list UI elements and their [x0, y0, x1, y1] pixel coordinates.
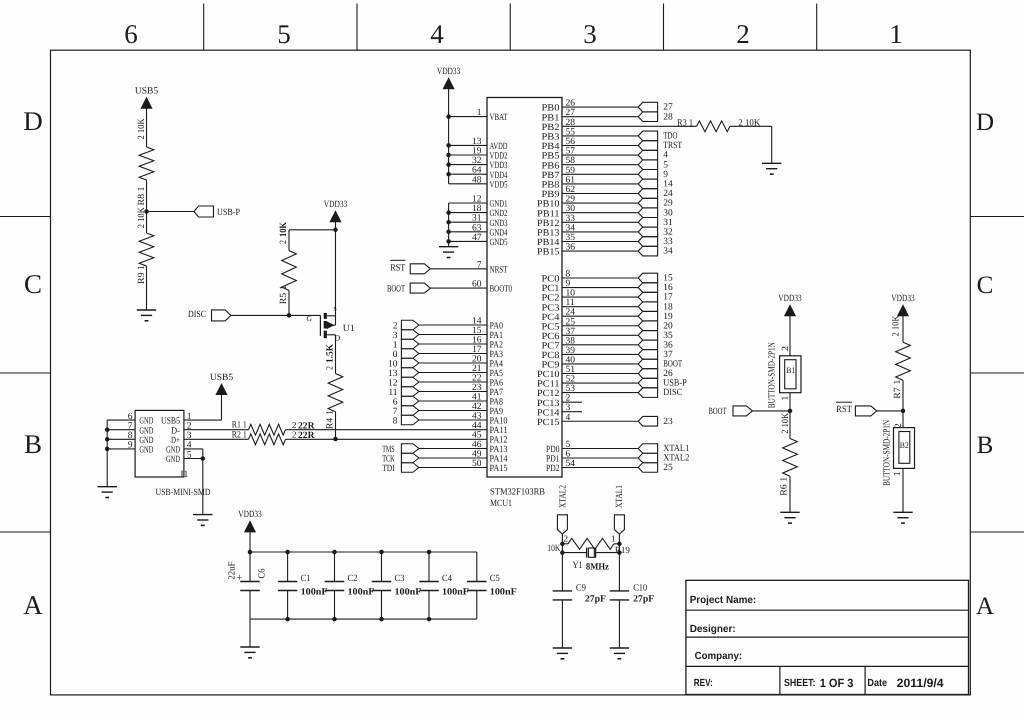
- label R2 value 2 22R: [292, 430, 315, 442]
- svg-text:GND2: GND2: [490, 209, 508, 219]
- svg-text:25: 25: [663, 463, 673, 473]
- svg-text:19: 19: [663, 312, 673, 322]
- svg-text:PC15: PC15: [537, 418, 560, 428]
- svg-text:16: 16: [663, 283, 673, 293]
- power VDD33 (above MCU): [437, 67, 461, 89]
- label R5 value 2 10K: [279, 221, 289, 244]
- svg-text:11: 11: [388, 388, 397, 398]
- svg-text:PC2: PC2: [542, 294, 560, 304]
- label C9 refdes: [576, 584, 586, 594]
- svg-text:PB5: PB5: [542, 152, 560, 162]
- wire J1 pin4 pin5 to ground: [184, 449, 205, 515]
- label J1 left pin numbers: [128, 412, 133, 451]
- label R3 refdes R3 1: [677, 118, 693, 128]
- svg-text:100nF: 100nF: [395, 587, 422, 597]
- ground J1 left: [98, 487, 117, 498]
- svg-text:PD1: PD1: [546, 455, 560, 465]
- svg-text:G: G: [307, 314, 313, 323]
- svg-text:7: 7: [393, 407, 398, 417]
- ground J1 pin4/5: [193, 515, 212, 526]
- label PB0 PB1 tag nets 27 28: [663, 103, 673, 123]
- label Designer: [690, 624, 736, 635]
- svg-text:XTAL2: XTAL2: [663, 454, 689, 464]
- capacitor C1: [278, 582, 298, 591]
- label R19 refdes: [615, 546, 630, 556]
- svg-text:PB11: PB11: [537, 209, 560, 219]
- wire B1 to BOOT node: [789, 393, 791, 411]
- capacitor C9: [553, 591, 573, 600]
- svg-text:D: D: [23, 106, 43, 136]
- svg-text:13: 13: [388, 369, 398, 379]
- tag stack PB0-PB1 with wires: [562, 102, 658, 121]
- power USB5 (left): [135, 87, 158, 109]
- row labels D C B A: [23, 106, 994, 620]
- svg-text:20: 20: [663, 321, 673, 331]
- svg-text:100nF: 100nF: [301, 587, 328, 597]
- svg-text:3: 3: [583, 19, 597, 49]
- svg-text:1 OF 3: 1 OF 3: [820, 676, 854, 690]
- svg-text:RST: RST: [836, 405, 852, 415]
- svg-text:TCK: TCK: [382, 454, 395, 464]
- svg-text:DISC: DISC: [663, 388, 682, 398]
- svg-text:VDD33: VDD33: [324, 200, 348, 210]
- svg-text:XTAL1: XTAL1: [615, 485, 625, 508]
- svg-text:PB12: PB12: [537, 219, 560, 229]
- svg-text:29: 29: [663, 199, 673, 209]
- svg-text:R8 1: R8 1: [137, 186, 147, 205]
- node RST junction: [901, 409, 906, 414]
- wire USB5 to R8: [146, 108, 148, 147]
- svg-text:GND4: GND4: [490, 228, 508, 238]
- wire BOOT tag to BOOT0 pin: [430, 287, 487, 289]
- svg-text:PA5: PA5: [490, 369, 504, 379]
- svg-text:Project Name:: Project Name:: [690, 595, 757, 606]
- svg-text:PB7: PB7: [542, 171, 560, 181]
- svg-text:PB2: PB2: [542, 123, 560, 133]
- svg-text:2: 2: [292, 420, 297, 430]
- svg-text:PC4: PC4: [542, 313, 560, 323]
- svg-text:10K: 10K: [547, 544, 560, 554]
- svg-text:100nF: 100nF: [490, 587, 517, 597]
- svg-text:2 10K: 2 10K: [892, 315, 902, 336]
- svg-text:VDD33: VDD33: [437, 67, 461, 77]
- svg-text:R1 1: R1 1: [232, 421, 247, 431]
- svg-text:PB9: PB9: [542, 190, 560, 200]
- wire R9 to ground: [146, 266, 148, 310]
- svg-text:PA10: PA10: [490, 417, 508, 427]
- svg-text:28: 28: [663, 112, 673, 122]
- svg-text:REV:: REV:: [694, 678, 713, 689]
- svg-text:14: 14: [663, 180, 673, 190]
- label R7 value 2 10K (vertical): [892, 315, 902, 336]
- svg-text:BOOT0: BOOT0: [490, 285, 513, 295]
- wire PC13 stub: [562, 401, 582, 403]
- svg-text:TMS: TMS: [382, 445, 395, 455]
- label PC tag nets: [663, 274, 687, 399]
- wire B2 to ground: [902, 468, 904, 512]
- tag XTAL1 (down): [614, 515, 624, 534]
- svg-text:RST: RST: [390, 263, 405, 273]
- svg-text:PB13: PB13: [537, 229, 560, 239]
- button B2: [894, 428, 915, 469]
- svg-text:R2 1: R2 1: [232, 430, 247, 440]
- wire C10 to ground: [618, 600, 620, 648]
- svg-text:R19: R19: [615, 546, 630, 556]
- resistor R19: [562, 538, 619, 549]
- wire node to B2: [902, 411, 904, 428]
- svg-text:GND: GND: [139, 446, 153, 456]
- wire R5 to gate node: [288, 290, 290, 315]
- label XTAL2 net (vertical): [558, 485, 568, 508]
- svg-text:27pF: 27pF: [633, 594, 654, 604]
- label TMS TCK TDI: [382, 445, 395, 474]
- connector J1 USB-MINI-SMD body: [135, 410, 184, 477]
- label R6 refdes R6 1 (vertical): [780, 477, 790, 496]
- power USB5 (above J1): [210, 373, 233, 395]
- wire VDD33 to R7: [902, 316, 904, 343]
- svg-text:1: 1: [889, 19, 903, 49]
- svg-text:PA9: PA9: [490, 407, 504, 417]
- svg-text:2 10K: 2 10K: [137, 118, 147, 139]
- svg-text:C10: C10: [633, 584, 647, 594]
- label B1 part BUTTON-SMD-2P1N (vertical): [767, 342, 777, 408]
- svg-text:1: 1: [611, 533, 616, 543]
- wire R3 to ground: [730, 126, 772, 163]
- label C10 refdes: [633, 584, 647, 594]
- resistor R4: [328, 374, 343, 412]
- label DISC text: [188, 310, 206, 320]
- svg-text:R5 1: R5 1: [279, 285, 289, 304]
- ground B2: [893, 512, 912, 523]
- label PA tag nets: [388, 321, 398, 426]
- svg-text:BUTTON-SMD-2P1N: BUTTON-SMD-2P1N: [883, 420, 893, 486]
- label B1 pin 1 (vertical): [781, 395, 791, 400]
- label R7 refdes R7 1 (vertical): [893, 379, 903, 398]
- svg-text:Y1: Y1: [573, 561, 583, 571]
- svg-text:PA14: PA14: [490, 455, 508, 465]
- wire node to R6: [789, 411, 791, 439]
- svg-text:PB1: PB1: [542, 113, 560, 123]
- svg-text:22uF: 22uF: [228, 562, 238, 580]
- capacitor C6 22uF electrolytic: [236, 572, 259, 591]
- wire RST tag to NRST pin: [430, 268, 487, 270]
- tag stack PA0-PA10 with wires: [401, 320, 487, 425]
- svg-text:B: B: [977, 432, 994, 459]
- label Y1 value 8MHz: [586, 563, 610, 573]
- label RST net with overline (right): [836, 402, 852, 415]
- svg-text:44: 44: [472, 421, 482, 431]
- label J1 right pin numbers: [187, 412, 192, 460]
- svg-text:2: 2: [279, 240, 289, 244]
- svg-text:GND: GND: [166, 446, 180, 456]
- svg-text:STM32F103RB: STM32F103RB: [490, 488, 545, 498]
- capacitor C4: [419, 582, 439, 591]
- wire node to R9: [146, 212, 148, 234]
- svg-text:C3: C3: [395, 574, 405, 584]
- wire BOOT tag to node: [752, 410, 790, 412]
- svg-text:PB4: PB4: [542, 142, 560, 152]
- svg-text:27: 27: [663, 103, 673, 113]
- tag RST to NRST: [410, 264, 430, 274]
- svg-text:PC1: PC1: [542, 284, 560, 294]
- svg-text:VDD33: VDD33: [238, 510, 262, 520]
- svg-text:DISC: DISC: [188, 310, 206, 320]
- wire VDD33 to B1: [789, 316, 791, 356]
- svg-text:PC7: PC7: [542, 341, 560, 351]
- svg-text:TRST: TRST: [663, 141, 682, 151]
- svg-text:VDD33: VDD33: [778, 294, 802, 304]
- svg-text:Company:: Company:: [695, 651, 743, 662]
- svg-text:GND1: GND1: [490, 200, 508, 210]
- svg-text:PC3: PC3: [542, 303, 560, 313]
- wire R4 to D+ line: [335, 412, 337, 439]
- ground C10: [610, 648, 629, 659]
- svg-text:PA13: PA13: [490, 445, 508, 455]
- svg-text:J1: J1: [180, 470, 189, 480]
- svg-text:VBAT: VBAT: [490, 113, 508, 123]
- node USB-P junction: [144, 209, 149, 214]
- ground cap bank: [240, 647, 259, 658]
- svg-text:PB15: PB15: [537, 248, 560, 258]
- svg-text:PC10: PC10: [537, 370, 560, 380]
- svg-text:MCU1: MCU1: [490, 499, 512, 509]
- svg-text:SHEET:: SHEET:: [784, 678, 816, 689]
- resistor R3: [697, 121, 730, 132]
- resistor R9: [139, 233, 154, 266]
- wire XTAL1 column: [617, 534, 622, 591]
- tag stack PD0-PD2 with wires: [562, 444, 658, 473]
- svg-text:PA15: PA15: [490, 464, 508, 474]
- wire J1 left gnd bus: [105, 420, 135, 487]
- wire R6 to ground: [789, 476, 791, 512]
- tag stack TMS TCK TDI with wires: [401, 444, 487, 473]
- svg-text:AVDD: AVDD: [490, 142, 508, 152]
- svg-text:15: 15: [663, 274, 673, 284]
- svg-text:XTAL2: XTAL2: [558, 485, 568, 508]
- label PB tag nets: [663, 132, 682, 257]
- label R9 value 2 10K: [137, 207, 147, 228]
- svg-text:PB14: PB14: [537, 238, 560, 248]
- label XTAL1 net (vertical): [615, 485, 625, 508]
- svg-text:C: C: [24, 269, 42, 299]
- svg-text:C5: C5: [490, 574, 500, 584]
- svg-text:37: 37: [663, 350, 673, 360]
- node VDD33/R5/U1 source: [333, 228, 338, 233]
- svg-text:C: C: [977, 272, 994, 299]
- svg-text:Designer:: Designer:: [690, 624, 736, 635]
- svg-text:24: 24: [663, 189, 673, 199]
- wire D+ R2 to MCU PA12: [286, 438, 488, 440]
- label MCU left pin names: [490, 113, 513, 474]
- svg-text:R7 1: R7 1: [893, 379, 903, 398]
- label MCU right pin numbers: [566, 99, 576, 469]
- label MCU refdes MCU1: [490, 499, 512, 509]
- resistor R1: [249, 424, 286, 435]
- label R1 value 2 22R: [292, 420, 315, 432]
- svg-text:4: 4: [430, 19, 444, 49]
- label R8 value 2 10K: [137, 118, 147, 139]
- svg-text:PA8: PA8: [490, 398, 504, 408]
- svg-text:PB8: PB8: [542, 181, 560, 191]
- resistor R5: [282, 251, 297, 291]
- svg-text:2: 2: [292, 430, 297, 440]
- svg-text:D+: D+: [171, 436, 180, 446]
- svg-text:C9: C9: [576, 584, 586, 594]
- svg-text:R3 1: R3 1: [677, 118, 693, 128]
- svg-text:PA7: PA7: [490, 388, 504, 398]
- tag XTAL2 (down): [557, 515, 567, 534]
- label MCU left pin numbers: [472, 108, 482, 469]
- tag 23 on PC15: [638, 416, 673, 426]
- svg-text:R4 1: R4 1: [326, 410, 336, 429]
- label SHEET 1 OF 3: [784, 676, 854, 690]
- svg-text:PB0: PB0: [542, 104, 560, 114]
- svg-text:R9 1: R9 1: [137, 265, 147, 284]
- svg-text:U1: U1: [343, 324, 355, 334]
- wire D- R1 to MCU PA11: [286, 429, 488, 431]
- svg-text:VDD4: VDD4: [490, 171, 508, 181]
- svg-text:2: 2: [736, 19, 750, 49]
- row ruler ticks: [0, 217, 1024, 533]
- wire PB2 to R3: [562, 125, 697, 127]
- svg-text:USB-P: USB-P: [217, 208, 240, 218]
- transistor U1 PMOS: [307, 304, 356, 343]
- svg-text:PC9: PC9: [542, 361, 560, 371]
- wire cap bank top bus: [248, 532, 477, 582]
- svg-text:GND: GND: [166, 455, 180, 465]
- wire VDD33 stem to node: [335, 222, 337, 230]
- svg-text:PC12: PC12: [537, 389, 560, 399]
- svg-text:BOOT: BOOT: [387, 285, 405, 295]
- title block table: [686, 580, 969, 694]
- label B2 part BUTTON-SMD-2P1N (vertical): [883, 420, 893, 486]
- label USB-MINI-SMD: [156, 488, 211, 498]
- label MCU part STM32F103RB: [490, 488, 545, 498]
- svg-text:27pF: 27pF: [585, 594, 606, 604]
- svg-text:PB10: PB10: [537, 200, 560, 210]
- svg-text:D: D: [976, 109, 994, 136]
- label R5 refdes R5 1: [279, 285, 289, 304]
- label R19 pin 2: [564, 533, 569, 543]
- svg-text:34: 34: [663, 247, 673, 257]
- label R6 value 2 10K (vertical): [781, 413, 791, 434]
- svg-text:GND: GND: [139, 426, 153, 436]
- svg-text:0: 0: [393, 350, 398, 360]
- svg-text:PC13: PC13: [537, 399, 560, 409]
- svg-text:36: 36: [663, 340, 673, 350]
- label B2 pin 1 (vertical): [893, 471, 903, 476]
- label Company: [695, 651, 743, 662]
- svg-text:5: 5: [663, 160, 668, 170]
- svg-text:C4: C4: [442, 574, 452, 584]
- power VDD33 (cap bank): [238, 510, 262, 532]
- capacitor C5: [467, 582, 487, 591]
- svg-text:Date: Date: [867, 678, 887, 689]
- label R2 refdes R2 1: [232, 430, 247, 440]
- label C6 value 22uF: [228, 562, 238, 580]
- svg-text:NRST: NRST: [490, 265, 508, 275]
- svg-text:PD0: PD0: [546, 445, 560, 455]
- label R9 refdes R9 1: [137, 265, 147, 284]
- svg-text:PC14: PC14: [537, 408, 560, 418]
- svg-text:GND5: GND5: [490, 238, 508, 248]
- wire VDD33 node to U1 source: [335, 230, 337, 316]
- wire R7 to RST node: [902, 380, 904, 411]
- svg-text:PC0: PC0: [542, 275, 560, 285]
- capacitor C10: [610, 591, 630, 600]
- capacitor C2: [325, 582, 345, 591]
- svg-text:B2: B2: [900, 440, 909, 450]
- ground MCU GND bus: [439, 247, 458, 258]
- svg-text:2: 2: [564, 533, 569, 543]
- svg-text:BUTTON-SMD-2P1N: BUTTON-SMD-2P1N: [767, 342, 777, 408]
- wire DISC to U1 gate: [231, 314, 320, 316]
- svg-text:B: B: [24, 429, 42, 459]
- svg-text:8MHz: 8MHz: [586, 563, 610, 573]
- power VDD33 (RST circuit): [891, 294, 915, 316]
- svg-text:2: 2: [326, 366, 336, 370]
- wire C9 to ground: [561, 600, 563, 648]
- node R5/DISC junction: [287, 313, 292, 318]
- svg-text:32: 32: [663, 228, 673, 238]
- svg-text:XTAL1: XTAL1: [663, 444, 689, 454]
- svg-text:TDI: TDI: [382, 464, 395, 474]
- wire R8 to node USB-P: [146, 180, 148, 212]
- svg-text:TDO: TDO: [663, 132, 677, 142]
- svg-text:1: 1: [893, 471, 903, 476]
- label Project Name: [690, 595, 757, 606]
- label Y1 refdes: [573, 561, 583, 571]
- svg-text:45: 45: [472, 431, 482, 441]
- label R1 refdes R1 1: [232, 421, 247, 431]
- node R4 on D+ line: [333, 437, 338, 442]
- svg-text:USB5: USB5: [210, 373, 233, 383]
- svg-text:30: 30: [663, 208, 673, 218]
- resistor R8: [139, 147, 154, 180]
- svg-text:USB5: USB5: [161, 417, 180, 427]
- wire node to USB-P tag: [147, 211, 195, 213]
- svg-text:R6 1: R6 1: [780, 477, 790, 496]
- svg-text:100nF: 100nF: [442, 587, 469, 597]
- label J1 pin names: [139, 417, 180, 465]
- label BOOT (MCU left): [387, 285, 405, 295]
- label C9 value 27pF: [585, 594, 606, 604]
- svg-text:2011/9/4: 2011/9/4: [897, 676, 944, 690]
- svg-text:23: 23: [663, 417, 673, 427]
- svg-text:BOOT: BOOT: [663, 360, 682, 370]
- svg-text:A: A: [23, 590, 43, 620]
- svg-text:C2: C2: [348, 574, 358, 584]
- svg-text:2: 2: [781, 346, 791, 351]
- svg-text:2: 2: [393, 321, 398, 331]
- svg-text:GND3: GND3: [490, 219, 508, 229]
- label RST with overline (MCU left): [390, 260, 405, 273]
- svg-text:5: 5: [277, 19, 291, 49]
- svg-text:USB5: USB5: [135, 87, 158, 97]
- label Date 2011/9/4: [867, 676, 944, 690]
- op-amp U? none; MCU STM32F103RB box: [487, 98, 562, 478]
- svg-text:VDD5: VDD5: [490, 180, 508, 190]
- svg-text:PB3: PB3: [542, 133, 560, 143]
- wire D- from J1 to R1: [184, 429, 249, 431]
- svg-text:PC8: PC8: [542, 351, 560, 361]
- svg-text:4: 4: [663, 151, 668, 161]
- wire RST tag to node: [877, 410, 903, 412]
- svg-text:2 10K: 2 10K: [137, 207, 147, 228]
- svg-text:GND: GND: [139, 417, 153, 427]
- svg-text:PC5: PC5: [542, 322, 560, 332]
- svg-text:26: 26: [663, 369, 673, 379]
